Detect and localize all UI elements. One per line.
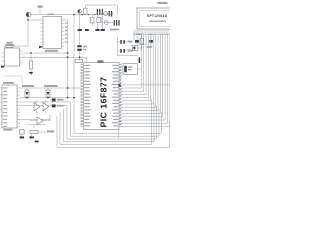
PIC left pin stubs (80, 66, 83, 127)
capacitor C9 dark (52, 104, 64, 107)
wire wrap bus under PIC (57, 98, 170, 148)
label Low Batt LED (44, 85, 58, 87)
speaker SP2 circle (102, 21, 108, 25)
junction rail dots (81, 14, 95, 16)
LCD subtitle text (149, 21, 166, 22)
wire rail continue (84, 14, 113, 16)
capacitor C6 pair (120, 49, 132, 53)
junction dots mid rail (26, 97, 75, 99)
microphone MIC1 (26, 12, 31, 17)
wire U4 pin1 to PIC (20, 87, 80, 89)
capacitor C3 plates (109, 11, 113, 16)
wire into PIC top (86, 57, 88, 62)
resistor R5 vertical (140, 33, 143, 50)
svg-text:PIC 16F877: PIC 16F877 (99, 77, 109, 128)
speaker SP1 circle (101, 12, 108, 16)
speaker SP0 circle (78, 9, 82, 29)
junction y88 (67, 87, 69, 89)
svg-text:SPT12064A: SPT12064A (147, 14, 168, 18)
LED D1 (25, 88, 29, 98)
wire LCD data bus verticals (141, 33, 170, 126)
label above PIC (98, 60, 104, 62)
PIC microcontroller U1 (84, 63, 120, 130)
junction C7 bottom (79, 56, 81, 58)
U2 right pin stubs (20, 51, 23, 63)
wire stub vertical right of PIC (117, 130, 119, 140)
label near VR1 (147, 46, 152, 48)
PIC left pin labels (84, 65, 90, 127)
label LCD1 top (158, 2, 168, 4)
wire to U3 pin1 (28, 19, 41, 21)
switch S1 box (20, 130, 25, 139)
junction x67 y53 (67, 52, 69, 54)
U2 left pin stubs (2, 53, 5, 61)
U3 left pin stubs (41, 20, 44, 47)
capacitor C8 dark (52, 98, 64, 101)
capacitor C10 dark bar (139, 57, 141, 63)
capacitor C7 electrolytic (77, 31, 87, 57)
resistor R3 under LCD pins (134, 33, 139, 46)
wire lcd pin drop (139, 33, 146, 44)
wire cluster vertical (101, 15, 103, 29)
resistor R2 vertical above rail (84, 5, 118, 15)
resistor R7 horizontal (75, 57, 82, 62)
junction node B top (73, 14, 75, 16)
label Power LED (22, 85, 34, 87)
capacitor C2 plates (97, 9, 103, 29)
resistor R6 vertical (29, 53, 32, 72)
op-amp U6 triangle (30, 114, 50, 125)
wire long vertical node B (73, 15, 75, 98)
box U5 below caps (123, 64, 138, 75)
LCD pin numbers (133, 34, 168, 35)
trimmer VR1 contrast (133, 46, 142, 51)
ground SP0 (78, 29, 82, 31)
junction on U2 out (30, 52, 32, 54)
wire mic lower lead down (13, 17, 28, 46)
LED D2 (46, 88, 50, 98)
PIC right pin stubs (119, 66, 122, 127)
LCD inner bezel (140, 11, 173, 27)
wire speaker row (108, 13, 114, 15)
wire caps common (118, 37, 139, 56)
wire U5 connections (123, 66, 142, 69)
power tap VCC (38, 5, 43, 14)
ground C1 area (85, 29, 89, 31)
ground R6 (29, 72, 34, 75)
capacitor C5 pair (120, 40, 132, 44)
IC U2 op-amp block (5, 45, 20, 66)
LCD pin header ticks (134, 30, 168, 34)
resistor R1 (5, 42, 14, 49)
ground mark U2 (1, 66, 4, 68)
capacitor C0 small box (97, 17, 101, 22)
wire speaker row 2 (102, 22, 120, 24)
wire U2 out long (23, 52, 68, 54)
U3 right pin stubs (62, 20, 65, 47)
wire U3 pin16 to vertical bus (65, 19, 68, 21)
ground arrow at U3 bottom-left (39, 46, 43, 49)
resistor R8 horizontal (29, 130, 54, 138)
resistor R4 under LCD pins (149, 33, 153, 45)
PIC right pin labels (112, 65, 118, 127)
LCD module outer box (137, 8, 175, 29)
wire U2 second out (23, 56, 87, 58)
transistor Q1 (20, 100, 71, 113)
U4 right pin stubs (17, 88, 20, 127)
IC U4 codec chip (2, 82, 17, 131)
label text cluster (110, 29, 119, 31)
junction PIC right pin 8 (118, 84, 120, 86)
transistor Q2 (20, 100, 67, 113)
U3 right pin number marks (65, 22, 67, 42)
wire U4 lower rail (20, 119, 50, 121)
wire mid rail (20, 97, 74, 99)
capacitor C1 box below rail (91, 15, 94, 27)
ground C2 (95, 29, 99, 31)
junction x67 y57 (67, 56, 69, 58)
wire lower rail (28, 125, 46, 128)
wire mic output to top rail (31, 14, 84, 16)
wire PIC to bus staircase (122, 85, 170, 127)
IC U3 voice chip (43, 14, 62, 52)
ground for cluster (101, 29, 105, 31)
wire long vertical node A (67, 20, 69, 98)
faint enclosure line left (3, 76, 22, 85)
capacitor C4 plates (114, 20, 120, 26)
PIC pin number marks (81, 64, 122, 125)
ground small extra (35, 141, 39, 143)
U4 inner pin labels (3, 87, 8, 127)
U4 left pin stubs (0, 88, 2, 123)
junction mic node (27, 19, 29, 21)
